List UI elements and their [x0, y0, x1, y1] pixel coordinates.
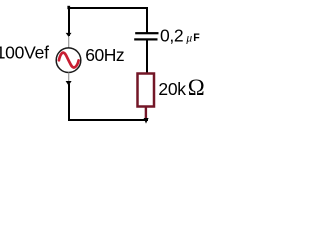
- pin arrow bottom of resistor: [144, 118, 149, 124]
- wire left vertical lower: [68, 84, 70, 120]
- svg-text:F: F: [193, 32, 200, 44]
- capacitor C1 bottom plate: [134, 38, 157, 40]
- terminal stub grey bottom: [68, 73, 69, 83]
- resistor R1 body: [138, 74, 155, 107]
- ac source V1 circle: [56, 48, 81, 73]
- svg-text:Ω: Ω: [188, 75, 205, 100]
- svg-text:μ: μ: [185, 32, 192, 44]
- svg-text:20k: 20k: [158, 79, 186, 99]
- svg-text:60Hz: 60Hz: [85, 45, 124, 65]
- wire top horizontal: [68, 7, 148, 9]
- pin arrow bottom of source: [66, 81, 72, 86]
- svg-text:100Vef: 100Vef: [0, 42, 49, 62]
- node junction top-left: [67, 6, 70, 9]
- svg-text:0,2: 0,2: [160, 25, 183, 45]
- resistor terminal stub maroon: [145, 107, 147, 118]
- wire right vertical upper: [146, 7, 148, 33]
- wire capacitor to resistor: [146, 41, 148, 74]
- capacitor C1 top plate: [135, 32, 158, 34]
- ac source sine wave: [59, 53, 79, 68]
- wire bottom horizontal: [68, 119, 148, 121]
- terminal stub grey top: [68, 37, 69, 48]
- pin arrow top of source: [66, 33, 72, 37]
- wire left vertical upper: [68, 7, 70, 36]
